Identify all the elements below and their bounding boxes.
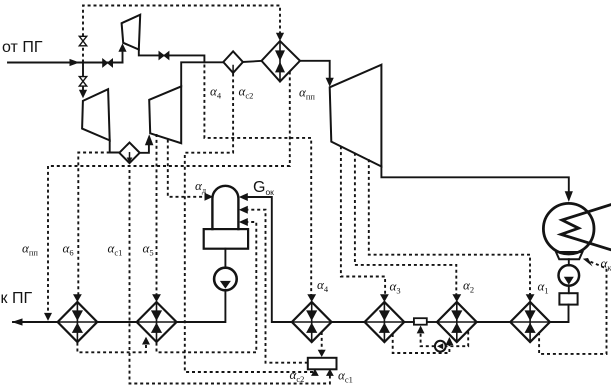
svg-text:α3: α3 <box>390 279 401 296</box>
valve V3 (filled bowtie on horizontal line) <box>103 59 113 67</box>
heater P3 diamond <box>365 302 405 342</box>
wire: T2R outlet up and to separator C2 <box>181 62 223 86</box>
dashed: extraction ad to deaerator <box>168 140 204 197</box>
turbine T2L (HP section left) <box>82 89 110 140</box>
heater P4 internals <box>292 302 332 342</box>
heater P3 internals <box>365 302 405 342</box>
reheater PP axis line <box>279 41 281 82</box>
drain cooler C rectangle <box>308 358 337 370</box>
reheater PP diamond <box>262 41 301 82</box>
svg-text:α4: α4 <box>210 84 222 101</box>
svg-text:αпп: αпп <box>299 85 315 102</box>
dashed: P5 drain to deaerator <box>157 222 257 352</box>
svg-text:αд: αд <box>195 178 207 195</box>
dashed: extraction a6 tap to heater P6 <box>78 153 109 295</box>
arrow: app into feed line <box>44 313 52 321</box>
node: junction arrow on line от ПГ <box>70 59 80 66</box>
heater P2 diamond <box>437 302 477 342</box>
separator C1 diamond <box>119 143 139 164</box>
arrow: P3 drain into P2 <box>446 337 454 345</box>
valve V4 (filled bowtie) <box>159 52 169 60</box>
svg-text:α2: α2 <box>463 278 474 295</box>
dashed: P2 drain to drain pump to mixer <box>421 332 469 347</box>
turbine T2R (HP section right) <box>149 86 181 143</box>
wire: C1 to turbine2R inlet with arrow <box>140 146 149 153</box>
wire: mixer box to P3 <box>404 321 414 323</box>
dashed: live steam to PP (top bus) <box>83 6 280 63</box>
svg-text:αс2: αс2 <box>290 367 305 384</box>
arrow: P4 drain into cooler C <box>318 350 326 357</box>
arrow: a5 drain into deaerator <box>239 218 248 226</box>
arrow: P1 drain into hotwell <box>583 258 593 267</box>
wire: PP to LP turbine inlet with arrow <box>300 61 330 79</box>
wire: T2L exhaust to separator C1 <box>110 140 120 152</box>
condenser hotwell trapezoid <box>556 252 582 259</box>
condenser cooling water zigzag <box>561 205 610 250</box>
heater P5 internals <box>137 302 177 342</box>
valve V2 (lower, outline bowtie vertical) <box>79 77 86 87</box>
wire: feed line P5 to P6 <box>97 321 137 323</box>
deaerator column head <box>212 186 238 229</box>
svg-text:αпп: αпп <box>22 241 38 258</box>
wire: turbine1 exhaust to valve V4 and down <box>139 50 205 63</box>
turbine T3 (LP cylinder) <box>330 65 382 167</box>
heater P2 internals <box>437 302 477 342</box>
svg-text:αс1: αс1 <box>108 241 123 258</box>
separator C2 inner tick <box>232 66 234 73</box>
wire: riser to HP turbine inlet (solid below junction) <box>82 63 84 77</box>
arrow: ac1 into cooler C <box>326 369 334 376</box>
dashed: extraction a4 from HP exhaust down to heater P4 <box>204 65 311 295</box>
svg-text:α1: α1 <box>538 279 549 296</box>
dashed: extraction a2 from LP turbine <box>355 153 456 295</box>
dashed: separator C2 drain ac2 to drain cooler <box>185 74 315 373</box>
dashed: separator C1 drain ac1 along bottom to drain cooler <box>130 170 330 384</box>
valve V1 (upper, outline bowtie vertical) <box>79 36 86 46</box>
deaerator tank <box>204 229 248 249</box>
wire: riser into turbine1 with arrow <box>122 53 124 63</box>
arrow: P6 drain into P5 <box>142 337 150 345</box>
condensate pump circle <box>559 265 580 286</box>
arrow: pumped drain into mixer box <box>417 326 425 334</box>
heater P1 diamond <box>510 302 550 342</box>
heater P6 diamond <box>58 302 98 342</box>
dashed: P4 drain into drain cooler <box>321 332 323 351</box>
heater P3 top entry arrow <box>380 294 389 302</box>
svg-text:от ПГ: от ПГ <box>2 39 43 56</box>
condenser K circle <box>543 203 594 254</box>
wire: condensate line P2 to mixer box <box>427 321 437 323</box>
heater P2 top entry arrow <box>452 294 461 302</box>
heater P5 top entry arrow <box>152 294 161 302</box>
condensate pump impeller arrow <box>564 277 574 285</box>
dashed: extraction a3 from LP turbine <box>341 146 385 295</box>
dashed: P3 drain to P2 <box>393 334 450 353</box>
svg-text:к ПГ: к ПГ <box>1 290 33 307</box>
heater P6 internals <box>58 302 98 342</box>
svg-text:α6: α6 <box>63 241 74 258</box>
wire: box down to condensate line <box>550 305 569 322</box>
svg-text:αс1: αс1 <box>338 368 353 385</box>
heater P5 diamond <box>137 302 177 342</box>
svg-text:Gок: Gок <box>253 179 274 197</box>
arrow: ad into deaerator <box>205 193 214 201</box>
dashed: P1 drain to condenser hotwell <box>539 262 606 354</box>
drain pump (small circle with left arrow) <box>435 341 446 352</box>
svg-text:αк: αк <box>601 256 611 273</box>
mixer box on condensate line <box>414 318 427 325</box>
dashed: drain cooler outlet to deaerator <box>248 210 308 363</box>
heater P1 top entry arrow <box>526 294 535 302</box>
dashed: extraction a1 from LP turbine <box>369 159 530 295</box>
wire: condensate line P1 to P2 <box>477 321 511 323</box>
wire: pump to ejector box <box>568 286 570 294</box>
dashed: P6 drain cascade to P5 <box>77 343 146 353</box>
wire: condensate line P3 to P4 <box>332 321 365 323</box>
reheater PP top entry arrow <box>276 33 284 41</box>
separator C1 inner drain tick <box>129 153 131 159</box>
wire: C2 to reheater PP <box>243 61 262 62</box>
dashed: PP drain app to feed line <box>48 72 290 314</box>
ejector box <box>559 293 577 304</box>
feed pump impeller arrow <box>220 281 231 289</box>
wire: main steam line from ПГ <box>8 62 123 64</box>
wire: feed pump to feed line <box>177 290 226 322</box>
arrow: cooler outlet into deaerator <box>239 206 248 214</box>
turbine T1 (small drive turbine) <box>122 15 141 50</box>
wire: T3 exhaust to condenser <box>381 167 568 193</box>
wire: tank to feed pump <box>224 249 226 267</box>
wire: hotwell to condensate pump <box>568 259 570 265</box>
heater P6 top entry arrow <box>73 294 82 302</box>
feed pump circle <box>214 268 237 291</box>
wire: feed line to ПГ with arrow <box>13 321 58 323</box>
svg-text:α4: α4 <box>317 277 329 294</box>
heater P4 top entry arrow <box>307 294 316 302</box>
arrow: ac2 into cooler C <box>311 369 319 376</box>
wire: condensate line P4 to deaerator riser Gok <box>248 197 292 322</box>
separator C2 diamond <box>223 51 243 73</box>
heater P1 internals <box>510 302 550 342</box>
svg-text:αс2: αс2 <box>239 84 254 101</box>
wire: arrow into turbine2L top <box>82 86 84 90</box>
dashed: extraction a5 to heater P5 <box>156 134 158 295</box>
arrow Gok into deaerator head <box>239 193 248 201</box>
heater P4 diamond <box>292 302 332 342</box>
reheater PP inner hourglass arrows <box>275 50 285 72</box>
svg-text:α5: α5 <box>143 241 154 258</box>
